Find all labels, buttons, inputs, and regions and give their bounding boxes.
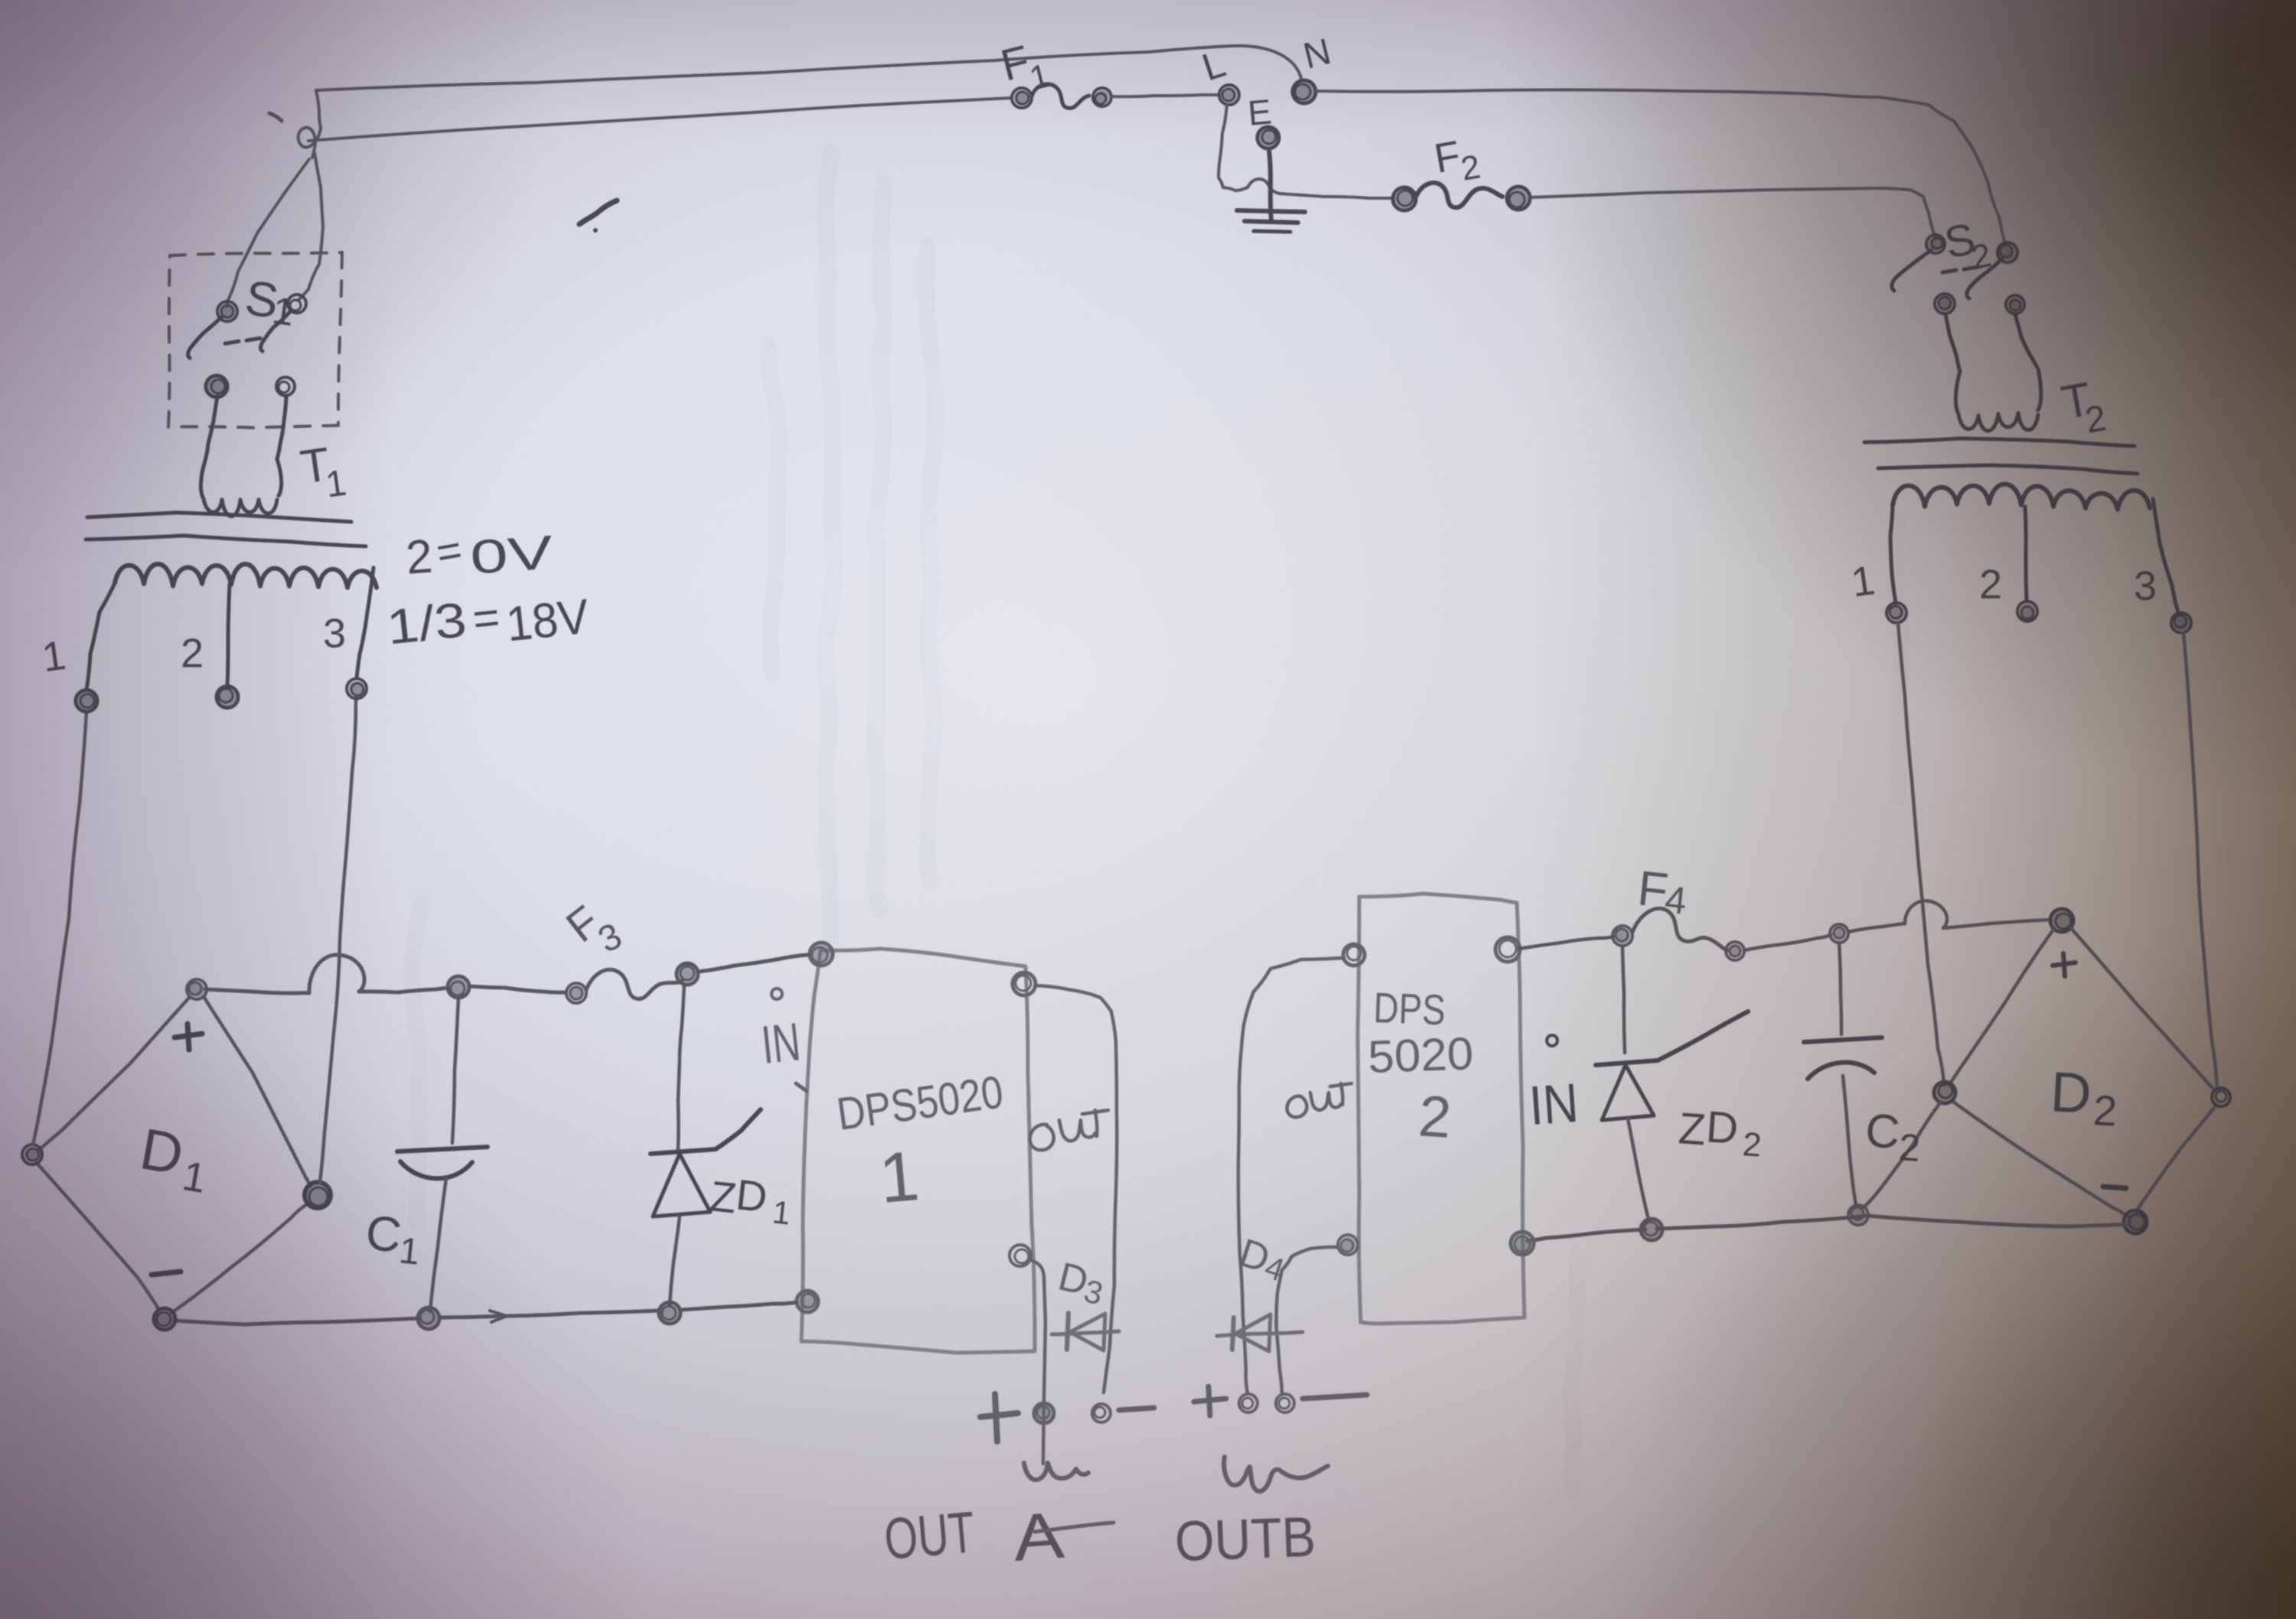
transformer T1 primary winding [201, 461, 277, 516]
wire: mains top conductor to N [316, 46, 1302, 90]
wire D2 left vertex to bottom rail [1864, 1102, 1941, 1207]
bridge rectifier D2 [2050, 909, 2073, 932]
transformer T1 core [87, 513, 351, 522]
fuse F3 [566, 983, 586, 1003]
module 2 terminal OUT+ (top-left) [1343, 944, 1365, 966]
fuse F4 [1632, 908, 1727, 950]
wire top rail from D1 to hop [205, 989, 309, 993]
pin mark o of module 2 IN [1547, 1035, 1557, 1046]
wire module1 OUT+ to D3 right vertical [1035, 985, 1117, 1393]
transformer T1 secondary winding [115, 564, 377, 588]
T2 tap 2 lead [2025, 507, 2027, 601]
wire T2 tap1 down to D2 [1898, 623, 1944, 1085]
T1 tap 1 lead [86, 583, 115, 690]
wire module2 OUT- to D4 right vertical [1277, 1247, 1337, 1393]
wire N to S2 [1316, 90, 2005, 243]
wire C1 junction to F3 [469, 986, 566, 992]
junction C1 bottom [418, 1308, 439, 1329]
wires S2 to T2 primary [1945, 314, 1960, 371]
wire bottom rail ZD1 to module 1 [680, 1302, 797, 1310]
cable squiggle OUT B [1224, 1457, 1328, 1491]
T1 tap 3 lead [357, 568, 373, 678]
module 1 terminal OUT- (right edge) [1009, 1245, 1031, 1266]
wire E to ground [1269, 149, 1271, 222]
capacitor C1 [452, 998, 458, 1143]
wire hop over T1 tap3 [309, 955, 364, 993]
stray dot mark near top-left [269, 113, 282, 121]
wire F3 to module 1 [698, 955, 808, 972]
capacitor C2 [1839, 943, 1841, 1034]
stray tick mark top-middle [579, 200, 617, 224]
module 2 terminal OUT- (bottom-left) [1338, 1235, 1358, 1255]
wire hop to C1 junction [359, 988, 448, 992]
zener diode ZD1 [680, 984, 684, 1057]
junction ZD2 bottom [1641, 1219, 1662, 1240]
terminal E [1257, 127, 1279, 148]
wire: pigtail loop at top-left [298, 127, 321, 158]
wire T1 tap1 to D1 [33, 712, 86, 1145]
wire module1 OUT- hook to D3 left vertical [1029, 1259, 1045, 1464]
label + of D2 [2053, 963, 2076, 966]
wire L down to F2 [1218, 105, 1247, 191]
wire hop over T2 tap1 [1905, 901, 1947, 928]
wire module2 OUT+ to D4 left vertical [1238, 958, 1343, 1393]
zener diode ZD2 [1623, 946, 1625, 1053]
switch S1 [217, 301, 237, 321]
transformer T2 primary winding [1955, 371, 2038, 431]
junction C2 bottom [1848, 1205, 1868, 1225]
wire bottom rail C1 to ZD1 [439, 1311, 659, 1318]
arrow mark on bottom rail [490, 1311, 507, 1322]
junction: module2 IN+ rail at F4 [1613, 926, 1632, 946]
module 1 terminal OUT+ (top-right) [1013, 972, 1035, 995]
module 2 terminal IN+ (top-right) [1495, 937, 1520, 962]
wire F4 to C2 junction [1744, 935, 1831, 950]
module 1 terminal IN+ (top-left) [810, 943, 833, 966]
wire hop to D2 top vertex [1943, 920, 2051, 928]
label OUT (cursive) of module 1 [1030, 1110, 1108, 1150]
wire bottom rail D1 to C1 [174, 1318, 418, 1324]
wire module2 IN+ to F4 [1519, 937, 1613, 949]
pin mark o of module 1 IN [771, 989, 782, 999]
output OUT B terminals [1194, 1399, 1226, 1402]
transformer T2 core [1864, 438, 2135, 446]
wire C2 junction to hop [1848, 924, 1905, 932]
terminal N [1293, 80, 1316, 103]
junction C2 top [1830, 924, 1848, 943]
T2 tap 3 lead [2153, 499, 2178, 612]
wire T1 tap3 to D1 [320, 698, 356, 1182]
wire: pigtail drop to S1 right pole [298, 153, 323, 300]
module 2 terminal IN- (bottom-right) [1511, 1232, 1534, 1255]
wire: mains second conductor to F1 [308, 98, 1012, 141]
output OUT A terminals [980, 1413, 1018, 1417]
ground symbol [1237, 210, 1305, 212]
junction C1 top [448, 976, 469, 998]
module 1 terminal IN- (bottom-left) [797, 1291, 818, 1312]
T2 tap 1 lead [1890, 505, 1896, 603]
wire F1 to L [1112, 95, 1219, 96]
diode D3 [1067, 1313, 1068, 1350]
cable squiggle OUT A [1024, 1463, 1088, 1480]
T1 tap 2 lead [227, 585, 230, 686]
label - of D2 [2103, 1187, 2126, 1188]
wire F2 to S2 [1530, 188, 1935, 239]
wires S1 to T1 primary [205, 396, 217, 461]
wire: pigtail to S1 left pole [227, 159, 309, 306]
fuse F2 [1393, 187, 1416, 210]
bridge rectifier D1 [187, 979, 207, 999]
switch S1 dashed enclosure [170, 252, 342, 256]
fuse F1 [1012, 88, 1032, 108]
label + of D1 [174, 1034, 202, 1038]
label - of D1 [152, 1272, 181, 1275]
wire: corner drop at top-left [316, 90, 321, 129]
terminal L [1219, 85, 1239, 105]
module DPS5020 #2 box [1358, 894, 1525, 1324]
junction ZD1 bottom [659, 1302, 680, 1324]
wire T2 tap3 down to D2 [2183, 633, 2217, 1088]
label OUT (cursive) of module 2 [1287, 1083, 1352, 1117]
tick mark inside module 1 [796, 1083, 807, 1091]
switch S2 [1926, 235, 1945, 253]
wire bottom rail right section [1657, 1216, 2127, 1229]
transformer T2 secondary winding [1893, 484, 2150, 510]
module DPS5020 #1 box [801, 949, 1035, 1353]
diode D4 [1232, 1318, 1234, 1350]
